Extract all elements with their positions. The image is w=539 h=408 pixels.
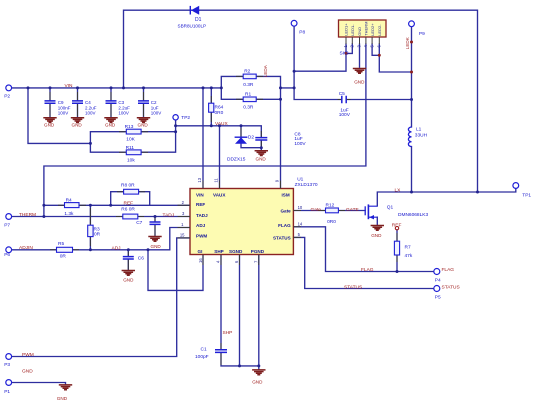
- svg-text:STATUS: STATUS: [344, 285, 362, 291]
- svg-text:33UH: 33UH: [415, 133, 428, 139]
- svg-text:GND: GND: [357, 27, 362, 36]
- svg-text:P2: P2: [4, 94, 10, 100]
- svg-text:SHP: SHP: [214, 249, 223, 254]
- svg-text:GND: GND: [354, 80, 365, 85]
- svg-text:SK3: SK3: [340, 50, 349, 56]
- svg-text:TP2: TP2: [181, 115, 190, 121]
- svg-text:VAUX: VAUX: [213, 193, 226, 198]
- svg-text:47k: 47k: [405, 253, 413, 259]
- svg-text:L1: L1: [416, 127, 422, 133]
- svg-text:R64: R64: [215, 105, 224, 111]
- svg-text:100pF: 100pF: [195, 354, 209, 360]
- svg-text:THERM: THERM: [19, 212, 36, 218]
- svg-text:TP1: TP1: [522, 192, 531, 198]
- svg-text:R6 0R: R6 0R: [121, 207, 135, 213]
- svg-text:11: 11: [214, 178, 219, 183]
- svg-text:C5: C5: [339, 91, 345, 97]
- svg-text:GND: GND: [371, 233, 382, 238]
- svg-text:15: 15: [180, 233, 185, 238]
- svg-text:0R: 0R: [94, 232, 101, 238]
- svg-text:VAUX: VAUX: [215, 121, 229, 127]
- svg-text:0R0: 0R0: [215, 110, 224, 116]
- svg-text:0.3R: 0.3R: [243, 82, 254, 88]
- svg-text:R7: R7: [405, 245, 411, 251]
- svg-text:GND: GND: [105, 122, 116, 127]
- svg-text:GND: GND: [72, 122, 83, 127]
- svg-text:100V: 100V: [339, 112, 351, 118]
- svg-text:GND: GND: [57, 396, 68, 401]
- svg-text:U1: U1: [297, 176, 303, 182]
- svg-text:14: 14: [298, 221, 303, 226]
- svg-text:GND: GND: [123, 278, 134, 283]
- svg-text:P6: P6: [4, 252, 10, 258]
- svg-text:R13: R13: [125, 124, 134, 130]
- svg-text:PGND: PGND: [251, 249, 265, 254]
- svg-text:TADJ: TADJ: [196, 213, 208, 218]
- svg-text:C6: C6: [138, 255, 144, 261]
- svg-text:C3: C3: [118, 100, 124, 105]
- svg-text:10k: 10k: [127, 158, 135, 164]
- svg-text:LEDK: LEDK: [405, 36, 410, 49]
- svg-text:0R: 0R: [60, 254, 67, 260]
- svg-text:FLAG: FLAG: [442, 267, 455, 273]
- svg-text:R11: R11: [126, 145, 135, 151]
- svg-text:GI: GI: [198, 249, 203, 254]
- svg-text:P3: P3: [4, 362, 10, 368]
- svg-text:FLAG: FLAG: [278, 223, 291, 228]
- svg-text:LED1-: LED1-: [350, 24, 355, 36]
- svg-text:FLAG: FLAG: [361, 267, 374, 273]
- svg-text:LED1+: LED1+: [344, 23, 349, 36]
- svg-text:SGND: SGND: [229, 249, 243, 254]
- svg-text:SBR8U100LP: SBR8U100LP: [178, 23, 207, 28]
- svg-text:GND: GND: [256, 157, 267, 162]
- svg-text:PWM: PWM: [22, 352, 34, 358]
- svg-text:D2: D2: [248, 135, 254, 141]
- svg-text:C9: C9: [58, 100, 64, 105]
- svg-text:VIN: VIN: [196, 193, 204, 198]
- svg-text:DMN6068LK3: DMN6068LK3: [398, 212, 428, 218]
- svg-text:R8 0R: R8 0R: [121, 183, 135, 189]
- svg-text:100V: 100V: [58, 110, 69, 115]
- svg-text:Q1: Q1: [387, 204, 394, 210]
- svg-text:REF: REF: [392, 222, 402, 228]
- svg-text:REF: REF: [196, 202, 205, 207]
- svg-text:GND: GND: [252, 379, 263, 384]
- svg-text:100V: 100V: [294, 141, 306, 147]
- svg-text:VIN: VIN: [65, 83, 74, 89]
- svg-text:10K: 10K: [126, 137, 135, 143]
- svg-text:LED2+: LED2+: [370, 23, 375, 36]
- svg-text:ISM: ISM: [282, 193, 290, 198]
- svg-text:ADJ: ADJ: [196, 223, 206, 228]
- svg-text:R1: R1: [245, 91, 251, 97]
- svg-text:P9: P9: [419, 31, 425, 37]
- svg-text:0R0: 0R0: [327, 219, 336, 225]
- svg-text:R12: R12: [326, 202, 335, 208]
- svg-text:GND: GND: [22, 368, 33, 374]
- svg-text:R3: R3: [94, 227, 100, 233]
- svg-text:100V: 100V: [151, 110, 162, 115]
- svg-text:SHP: SHP: [223, 330, 233, 336]
- svg-text:STATUS: STATUS: [273, 236, 291, 241]
- svg-text:D1: D1: [195, 17, 202, 23]
- svg-text:R5: R5: [58, 241, 64, 247]
- svg-text:10: 10: [298, 205, 303, 210]
- svg-text:0.3R: 0.3R: [243, 105, 254, 111]
- svg-text:P1: P1: [4, 389, 10, 395]
- svg-text:LX: LX: [395, 187, 402, 193]
- svg-text:STATUS: STATUS: [442, 284, 460, 290]
- svg-text:C2: C2: [151, 100, 157, 105]
- svg-text:P4: P4: [435, 277, 441, 283]
- svg-text:P8: P8: [299, 29, 305, 35]
- svg-text:C1: C1: [201, 347, 207, 353]
- svg-text:GATE: GATE: [346, 207, 359, 213]
- svg-text:13: 13: [197, 177, 202, 182]
- svg-text:PWM: PWM: [196, 234, 207, 239]
- svg-text:100V: 100V: [118, 110, 129, 115]
- svg-text:16: 16: [198, 258, 203, 263]
- svg-text:1.3k: 1.3k: [64, 211, 74, 217]
- svg-text:GND: GND: [44, 122, 55, 127]
- svg-text:Gate: Gate: [311, 207, 322, 213]
- svg-text:P5: P5: [435, 295, 441, 301]
- svg-text:LEDA: LEDA: [263, 64, 268, 77]
- svg-text:C7: C7: [136, 220, 142, 226]
- svg-text:R2: R2: [244, 69, 250, 75]
- svg-text:ADJ: ADJ: [112, 245, 122, 251]
- svg-text:R4: R4: [66, 197, 72, 203]
- svg-text:100V: 100V: [85, 110, 96, 115]
- svg-text:P7: P7: [4, 222, 10, 228]
- svg-text:LED2-: LED2-: [377, 24, 382, 36]
- svg-text:ADJIN: ADJIN: [19, 245, 33, 251]
- svg-text:Gate: Gate: [280, 209, 291, 214]
- svg-text:DDZX15: DDZX15: [227, 156, 246, 162]
- svg-text:THERM: THERM: [364, 22, 369, 36]
- svg-text:GND: GND: [151, 244, 162, 249]
- svg-text:GND: GND: [138, 122, 149, 127]
- svg-text:TADJ: TADJ: [163, 213, 175, 219]
- svg-text:ZXLD1370: ZXLD1370: [295, 182, 318, 188]
- svg-text:C4: C4: [85, 100, 91, 105]
- svg-text:REF: REF: [124, 201, 134, 207]
